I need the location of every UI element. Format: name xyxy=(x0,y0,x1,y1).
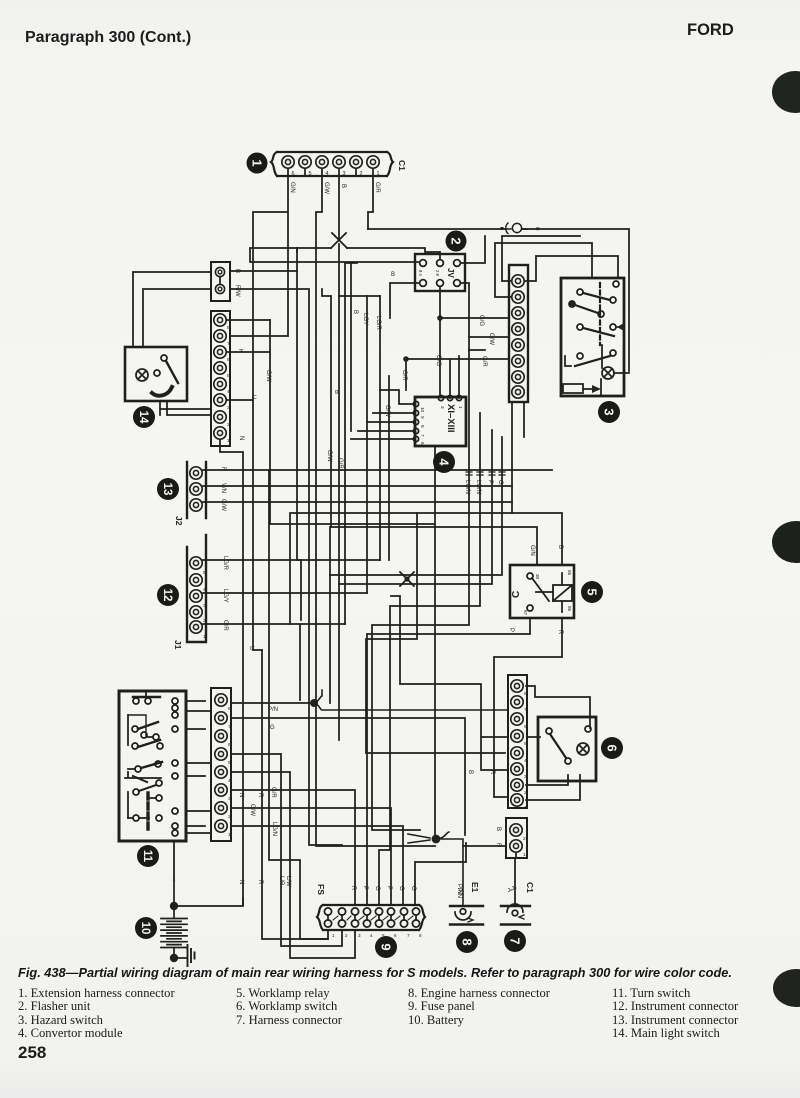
main light switch lamp xyxy=(136,369,148,381)
component 14 box (main light switch) xyxy=(125,347,187,401)
turn switch arm row3 xyxy=(128,761,162,782)
legend column 1 xyxy=(18,987,175,1040)
badge 8 xyxy=(456,931,478,953)
convertor top pins xyxy=(438,395,461,400)
badge 13 xyxy=(157,478,179,500)
wire chain x=417 down, row y=639, x=366 down, row y=753 to connector 6 xyxy=(366,513,505,753)
svg-text:7: 7 xyxy=(508,937,523,944)
svg-text:P/N: P/N xyxy=(456,884,462,894)
svg-text:10: 10 xyxy=(139,922,151,935)
svg-text:G: G xyxy=(398,886,404,891)
svg-text:N: N xyxy=(238,436,244,440)
wire G/R x=345 vertical (down to J1 G/R row) xyxy=(344,296,346,624)
convertor pin numbers xyxy=(420,406,463,445)
svg-text:G/R: G/R xyxy=(481,356,487,367)
svg-text:4: 4 xyxy=(228,778,231,784)
wire from 14 pin3 U down long xyxy=(227,400,262,650)
connector 1 pin numbers xyxy=(291,171,379,177)
wire J1 LG/Y right (bends up at x=367) xyxy=(203,592,367,594)
svg-text:R: R xyxy=(489,770,495,775)
svg-text:2: 2 xyxy=(345,933,348,938)
svg-text:G/N: G/N xyxy=(529,545,535,556)
right tab 2 xyxy=(772,521,800,563)
flasher pin numbers xyxy=(418,270,440,276)
wire hazard drop to row 513 xyxy=(511,470,513,513)
svg-text:G: G xyxy=(270,725,275,731)
svg-text:3: 3 xyxy=(358,933,361,938)
badge 10 xyxy=(135,917,157,939)
svg-text:3: 3 xyxy=(440,406,445,409)
caption Fig. 438 xyxy=(18,965,788,980)
svg-text:B: B xyxy=(495,827,501,831)
battery ground symbol xyxy=(188,945,195,966)
svg-text:8: 8 xyxy=(228,706,231,712)
wire bundle G x=502 down, row through X junction xyxy=(330,437,502,575)
wire J2 R to right, to hazard strip drop xyxy=(203,469,552,471)
svg-text:C: C xyxy=(511,591,522,598)
svg-text:1: 1 xyxy=(524,805,527,811)
svg-text:B: B xyxy=(557,545,563,549)
connector 12 terminals xyxy=(190,557,202,633)
hazard switch dashed bar xyxy=(599,283,601,345)
svg-text:5: 5 xyxy=(585,588,600,595)
connector 14 8-pin terminals xyxy=(214,314,226,439)
svg-text:7: 7 xyxy=(227,341,230,347)
badge 4 xyxy=(433,451,455,473)
wire from flasher left pins going left xyxy=(250,248,418,318)
wires into convertor left pins xyxy=(351,390,413,439)
header right: FORD xyxy=(687,21,734,40)
svg-text:R: R xyxy=(557,630,563,635)
badge 5 xyxy=(581,581,603,603)
relay pin 87 xyxy=(523,605,533,616)
svg-text:B: B xyxy=(333,390,339,394)
wire conn11 pin2 G/W right, down to fuse panel xyxy=(231,808,391,905)
svg-text:7: 7 xyxy=(524,707,527,713)
svg-text:LG/N: LG/N xyxy=(475,480,481,494)
wire R x=262 vertical bottom xyxy=(262,650,328,939)
wire from 2-pin down to C1 xyxy=(515,853,516,906)
svg-text:6: 6 xyxy=(227,357,230,363)
svg-text:L/R: L/R xyxy=(278,876,284,886)
wires conn6 right side to switch xyxy=(526,686,590,800)
svg-text:U: U xyxy=(250,395,256,399)
svg-text:5: 5 xyxy=(524,741,527,747)
svg-text:6: 6 xyxy=(524,724,527,730)
hazard wire right side loop xyxy=(602,345,629,373)
svg-text:C1: C1 xyxy=(525,882,535,893)
svg-text:1: 1 xyxy=(228,832,231,838)
turn switch arm row2 xyxy=(128,715,163,749)
wires below conn11 looping to fuse bottom xyxy=(309,790,342,845)
svg-text:LG/R: LG/R xyxy=(222,556,228,571)
svg-text:3: 3 xyxy=(524,774,527,780)
svg-text:G/W: G/W xyxy=(326,450,332,462)
central vertical G/W x=389 xyxy=(388,376,390,560)
relay coil xyxy=(553,570,572,612)
svg-text:1: 1 xyxy=(250,159,265,166)
svg-text:E1: E1 xyxy=(470,882,480,893)
connector 3 strip body (hazard connector) xyxy=(509,265,528,402)
hazard resistor and arrow xyxy=(563,379,601,396)
wire K chain from conn14 pins down to junction arrow xyxy=(270,320,435,835)
svg-text:8: 8 xyxy=(524,691,527,697)
svg-text:87: 87 xyxy=(523,610,528,616)
wires from hazard strip top pins up-left xyxy=(495,236,592,297)
turn switch inner right pin column xyxy=(172,698,178,836)
svg-text:2: 2 xyxy=(524,790,527,796)
svg-text:5: 5 xyxy=(227,373,230,379)
svg-text:B: B xyxy=(234,269,240,273)
svg-text:9: 9 xyxy=(420,416,425,419)
svg-text:V/N: V/N xyxy=(220,483,226,493)
relay arm-coil link xyxy=(536,591,553,593)
wire vertical 297 down long xyxy=(297,248,301,620)
connector 2 body (flasher unit) xyxy=(415,254,465,291)
svg-text:2: 2 xyxy=(203,618,206,624)
hazard contacts row3 xyxy=(577,323,624,336)
svg-text:7: 7 xyxy=(407,933,410,938)
svg-text:B: B xyxy=(352,310,358,314)
wires into 2-pin xyxy=(463,845,505,847)
wire conn11 pin5 right, down at x=281 to fuse bottom loop xyxy=(231,754,342,946)
svg-text:4: 4 xyxy=(325,171,328,177)
wire conn11 pin3 G/R right, down to fuse panel xyxy=(231,790,355,905)
wire P from relay pin87 down to fuse panel xyxy=(367,618,530,905)
convertor left pins xyxy=(413,401,418,441)
badge 3 xyxy=(598,401,620,423)
wire R/W horizontal y=289 from 2-pin down bundle xyxy=(230,289,309,560)
svg-text:4: 4 xyxy=(524,758,527,764)
component 11 box (turn switch) xyxy=(119,691,186,841)
junction dot at (440,318) xyxy=(437,315,443,321)
svg-text:8: 8 xyxy=(419,933,422,938)
svg-text:6: 6 xyxy=(394,933,397,938)
svg-text:4: 4 xyxy=(227,389,230,395)
connector 12 pin numbers xyxy=(203,570,206,640)
wire from strip pin3 left xyxy=(525,256,618,281)
svg-text:1: 1 xyxy=(203,634,206,640)
svg-text:5: 5 xyxy=(308,171,311,177)
svg-text:R/W: R/W xyxy=(234,285,240,297)
component 3 box (hazard switch) xyxy=(561,278,624,396)
wire B horizontal y=271 from 2-pin to vertical 297 xyxy=(230,270,297,272)
svg-text:L/W: L/W xyxy=(285,876,291,887)
svg-text:A: A xyxy=(510,886,516,890)
svg-text:P: P xyxy=(386,886,392,890)
svg-text:R: R xyxy=(350,886,356,891)
svg-text:11: 11 xyxy=(141,850,153,863)
svg-text:8: 8 xyxy=(420,425,425,428)
wire bundle P x=492 down, row through X junction xyxy=(339,430,492,584)
wire from 14 pin1 N down long xyxy=(220,440,243,905)
wire horizontal pair into bundle from B run xyxy=(339,295,380,297)
connector 14 2-pin body xyxy=(211,262,230,301)
svg-text:86: 86 xyxy=(567,570,572,576)
wire row y=596 to connector 6 chain xyxy=(391,596,508,770)
svg-text:J2: J2 xyxy=(174,516,184,526)
connector 14 2-pin terminals xyxy=(215,267,224,293)
svg-text:FS: FS xyxy=(316,884,326,895)
wire J2 V/N to right xyxy=(203,485,512,487)
svg-text:2: 2 xyxy=(227,422,230,428)
long verticals left bundle x=269 xyxy=(269,470,328,939)
component 8 E1 terminal xyxy=(450,906,483,925)
svg-text:G/W: G/W xyxy=(323,182,329,194)
connector 14 8-pin body xyxy=(211,311,230,446)
wire G/N into relay pin30 (row y=527) xyxy=(331,527,537,565)
svg-text:4: 4 xyxy=(370,933,373,938)
wire conn11 pin7 P/N right xyxy=(231,718,465,835)
svg-text:P: P xyxy=(487,480,493,484)
wire from 14 pin6 K to right xyxy=(227,320,270,352)
svg-text:P: P xyxy=(508,628,514,632)
connector 11 8-pin body xyxy=(211,688,231,841)
central bundle vertical LG/R x=380 (down to J1 LG/R row) xyxy=(379,296,381,560)
svg-text:C1: C1 xyxy=(397,160,407,171)
svg-text:G/W: G/W xyxy=(488,333,494,345)
wire G/W from C1 long down through junction (316,703) to y=846 xyxy=(316,176,435,846)
legend column 3 xyxy=(408,987,550,1027)
svg-text:G: G xyxy=(497,480,503,485)
svg-text:XI–XIII: XI–XIII xyxy=(445,404,456,433)
wire from junction right then down to flasher top-middle pin xyxy=(347,248,440,259)
svg-text:6: 6 xyxy=(228,742,231,748)
svg-text:14: 14 xyxy=(137,411,149,424)
svg-text:3: 3 xyxy=(227,405,230,411)
hazard lamp xyxy=(602,367,614,379)
connector 6 2-pin body xyxy=(506,818,527,858)
wire from junction left to x=297 drop xyxy=(297,248,331,252)
connector 6 pin numbers xyxy=(524,691,527,811)
wire B from C1 through junction down xyxy=(338,176,340,238)
right tab 3 xyxy=(773,969,800,1007)
svg-text:12: 12 xyxy=(161,589,173,602)
wire conn11 pin6 G right, down to 2-pin B xyxy=(528,736,540,738)
badge 7 xyxy=(504,930,526,952)
junction dot at (406,359) xyxy=(403,356,409,362)
badge 1 xyxy=(247,153,268,174)
component 10 battery plates xyxy=(161,880,187,962)
svg-text:2: 2 xyxy=(228,814,231,820)
worklamp switch lamp xyxy=(577,743,589,755)
svg-text:N: N xyxy=(238,880,244,884)
svg-text:3: 3 xyxy=(602,408,617,415)
central bundle vertical B x=357 xyxy=(345,263,357,431)
wire hazard strip drop x=512 xyxy=(511,402,513,470)
connector 6 2-pin terminals xyxy=(510,824,522,852)
svg-text:G/R: G/R xyxy=(374,182,380,193)
worklamp switch contacts xyxy=(546,726,591,764)
svg-text:4: 4 xyxy=(203,587,206,593)
relay switch arm xyxy=(532,578,549,601)
svg-text:3: 3 xyxy=(228,796,231,802)
wire G/N from C1 jog left into long vertical x=253 xyxy=(231,176,288,400)
hazard contacts row1 xyxy=(577,281,619,303)
badge 12 xyxy=(157,584,179,606)
svg-text:B: B xyxy=(467,770,473,774)
svg-text:LG/N: LG/N xyxy=(464,480,470,494)
svg-text:G/N: G/N xyxy=(289,182,295,193)
svg-text:G/G: G/G xyxy=(478,315,484,326)
badge 14 xyxy=(133,406,155,428)
wire break marks on bundle xyxy=(466,472,505,475)
connector 11 terminals xyxy=(215,694,227,832)
page number 258 xyxy=(18,1043,46,1063)
svg-text:N: N xyxy=(238,793,244,797)
wire row y=513 long (to relay coil B) xyxy=(290,513,562,624)
svg-text:JV: JV xyxy=(446,268,455,278)
turn switch lower section xyxy=(125,772,162,795)
junction dot at (314,703) xyxy=(310,699,318,707)
svg-text:G/R: G/R xyxy=(222,620,228,631)
svg-text:4: 4 xyxy=(437,458,452,466)
svg-text:7: 7 xyxy=(420,434,425,437)
wire J2 G/W to right xyxy=(203,501,512,503)
svg-text:U: U xyxy=(248,646,254,650)
wire into fuse 6 top from arrow junction xyxy=(415,843,466,905)
svg-text:6: 6 xyxy=(605,744,620,751)
svg-text:P: P xyxy=(362,886,368,890)
flasher pins xyxy=(420,260,461,287)
wire conn11 pin4 right, down at x=290 to fuse bottom loop xyxy=(231,772,355,958)
connector 6 terminals xyxy=(511,680,523,806)
turn switch bottom contacts xyxy=(128,792,162,821)
svg-text:J1: J1 xyxy=(173,640,183,650)
svg-text:G: G xyxy=(374,886,380,891)
svg-text:B: B xyxy=(340,184,346,188)
svg-text:85: 85 xyxy=(567,606,572,612)
svg-text:8 4: 8 4 xyxy=(418,270,423,276)
legend column 4 xyxy=(612,987,738,1040)
wire G/R from C1 down right xyxy=(368,176,373,229)
svg-text:G/R: G/R xyxy=(270,787,276,798)
wire from switch box bottom to 8pin connector xyxy=(160,401,211,415)
main light switch contacts and arm xyxy=(152,355,178,396)
junction X at (407,579) xyxy=(400,572,414,586)
svg-text:LGY: LGY xyxy=(362,313,368,325)
connector 3 strip terminals xyxy=(512,275,524,398)
svg-text:5: 5 xyxy=(203,570,206,576)
component 4 box (convertor module XI-XIII) xyxy=(415,397,466,446)
svg-text:13: 13 xyxy=(161,483,173,496)
turn switch arm row1 xyxy=(132,722,159,740)
wire flasher bottom-middle pin down (G/G) with junction to hazard strip xyxy=(440,287,509,397)
svg-text:1: 1 xyxy=(332,933,335,938)
connector 1 terminal pins xyxy=(282,156,379,176)
inline connector symbol on y=229 wire xyxy=(501,223,540,234)
turn switch top contacts xyxy=(133,691,160,704)
turn switch dashed bar xyxy=(146,793,149,831)
svg-text:B: B xyxy=(391,272,395,278)
svg-text:8: 8 xyxy=(460,938,475,945)
wire long horizontal y=229 to hazard area xyxy=(368,229,629,371)
component 9 fuse panel body xyxy=(317,905,425,930)
component 7 C1 terminal xyxy=(501,904,530,925)
svg-text:2: 2 xyxy=(359,171,362,177)
connector 14 8-pin numbers xyxy=(227,325,230,444)
svg-text:1: 1 xyxy=(227,438,230,444)
svg-text:G/W: G/W xyxy=(220,499,226,511)
svg-text:30: 30 xyxy=(535,574,540,580)
connector 6 8-pin body xyxy=(508,675,527,808)
connector 11 pin numbers xyxy=(228,706,231,838)
wire R from relay coil down to connector 6 pin 1 xyxy=(494,618,562,797)
svg-text:G/W: G/W xyxy=(249,804,255,816)
hazard contacts row4 xyxy=(565,350,616,366)
wire conn11 pin8 right (to junction) xyxy=(231,702,314,704)
svg-text:G/W: G/W xyxy=(265,370,271,382)
central verticals continuing down x=309,319,330 xyxy=(309,527,330,790)
svg-text:G: G xyxy=(410,886,416,891)
wire battery to N xyxy=(174,841,243,906)
svg-text:1: 1 xyxy=(458,406,463,409)
wires turn switch to connector 11 xyxy=(186,701,211,833)
svg-text:3: 3 xyxy=(203,603,206,609)
wire J1 LG/R right (bends up at x=380) xyxy=(203,559,380,561)
svg-text:2: 2 xyxy=(449,237,464,244)
svg-text:7: 7 xyxy=(228,724,231,730)
wire hazard strip drop x=524 xyxy=(523,402,525,437)
svg-text:10: 10 xyxy=(420,407,425,413)
connector 13 terminals xyxy=(190,467,202,511)
junction X at (339,240) xyxy=(331,233,347,248)
junction arrow at (435,838) xyxy=(408,832,463,906)
wire B x=338 long down xyxy=(338,244,340,740)
svg-text:G/W: G/W xyxy=(384,405,390,417)
badge 11 xyxy=(137,845,159,867)
relay pin 30 xyxy=(527,573,540,580)
component 5 box (worklamp relay) xyxy=(510,565,574,618)
badge 9 xyxy=(375,936,397,958)
svg-text:9: 9 xyxy=(379,943,394,950)
wires into convertor top pins xyxy=(450,356,459,398)
header left: Paragraph 300 (Cont.) xyxy=(25,29,191,47)
wire conn11 pin1 LG/N right, down to fuse panel xyxy=(231,826,403,905)
component 6 box (worklamp switch) xyxy=(538,717,596,781)
hazard contacts row2 xyxy=(569,301,604,317)
wire G/W x=331 vertical xyxy=(322,289,331,527)
2-pin pin numbers xyxy=(523,836,526,858)
badge 6 xyxy=(601,737,623,759)
svg-text:3: 3 xyxy=(342,171,345,177)
badge 2 xyxy=(446,231,467,252)
svg-text:5: 5 xyxy=(228,760,231,766)
fuse panel fuses (8 dumbbells) xyxy=(324,908,419,927)
wire bundle LG/N x=480 down, staircase left, to fuse panel xyxy=(379,413,480,905)
legend column 2 xyxy=(236,987,342,1027)
svg-text:LG/Y: LG/Y xyxy=(222,589,228,603)
connector 1 body (extension harness connector C1, top strip) xyxy=(271,152,393,176)
svg-text:8: 8 xyxy=(227,325,230,331)
connector 12 rails (J1) xyxy=(187,535,206,642)
svg-text:2: 2 xyxy=(523,836,526,842)
svg-text:LG/N: LG/N xyxy=(271,822,277,836)
wire J1 G/R right (bends up at x=345) xyxy=(203,624,345,700)
wire from flasher top-right pin to hazard top xyxy=(461,236,485,350)
svg-text:6: 6 xyxy=(420,442,425,445)
central bundle vertical LGY x=367 (down to J1 LG/Y row) xyxy=(366,296,368,593)
right tab 1 xyxy=(772,71,800,113)
svg-text:LG/R: LG/R xyxy=(375,316,381,331)
svg-text:1: 1 xyxy=(376,171,379,177)
svg-text:G/G: G/G xyxy=(435,355,441,366)
svg-text:2 8: 2 8 xyxy=(435,270,440,276)
connector 13 rails (J2) xyxy=(187,462,206,518)
wire bundle LG/N x=469 down, staircase left xyxy=(372,350,469,830)
svg-text:6: 6 xyxy=(291,171,294,177)
fuse panel terminal numbers xyxy=(332,933,422,938)
